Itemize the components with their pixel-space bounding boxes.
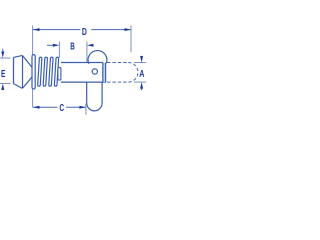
end face back edge [105,63,107,82]
shaft bottom line [61,81,106,83]
knob left face [13,57,15,83]
knob neck bottom cone [23,77,32,88]
knob bottom edge [14,84,23,89]
knob top edge [14,55,23,57]
hidden pin bottom dashed line [107,81,128,83]
dimension C line [33,106,86,108]
U loop [87,82,102,111]
knob neck top cone [23,56,32,68]
dimension B right segment + arrow [92,44,95,46]
rib 2 [43,57,47,86]
rib 1 [38,57,42,86]
knob flange capsule [32,55,35,89]
dimension A top arrow [141,56,143,58]
extension line right of D [130,26,132,53]
dimension D line [33,29,131,31]
dimension B ticks [58,42,60,58]
dimension C left arrow [33,106,40,109]
dimension B left segment + arrow [47,44,54,46]
dimension A ticks [134,62,146,64]
dimension E top arrow [2,49,4,53]
dimension D left arrow [33,28,40,31]
end face band [103,63,106,83]
small end rib [58,68,61,80]
svg-text:E: E [1,68,5,80]
svg-text:C: C [59,102,64,114]
rib 4 [54,57,58,86]
svg-text:A: A [139,68,144,80]
shaft top line [61,62,103,64]
dimension C right arrow [79,106,86,109]
svg-text:B: B [70,40,75,52]
svg-text:D: D [82,26,87,38]
hidden pin top dashed line [107,62,128,64]
hidden pin tip dashed arc [128,63,138,83]
dimension E bottom arrow [2,89,4,90]
knob rim line [22,55,24,88]
dimension E ticks [0,57,11,59]
extension line left (D/C shared) [32,26,34,108]
lanyard hole [92,69,97,74]
dimension A bottom arrow [141,87,143,90]
dimension D right arrow [125,28,132,31]
end face front edge [102,63,104,83]
rib 3 [49,57,53,86]
ring dome arc [88,51,107,64]
dimension C right tick [85,104,87,115]
